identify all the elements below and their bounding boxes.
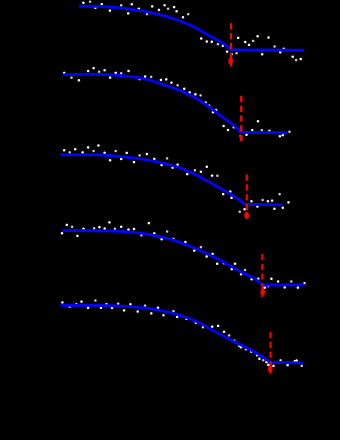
panel 1 red dashed break-time line — [230, 23, 232, 66]
panel 5 red break marker ellipse — [268, 366, 273, 373]
panel 3 scatter data points (white) — [63, 144, 290, 213]
panel 4 red break marker ellipse — [261, 289, 266, 296]
panel 2 red break marker ellipse — [240, 135, 243, 141]
panel 5 red dashed break-time line — [270, 332, 272, 374]
panel 3 blue model light curve — [61, 155, 283, 205]
panel 1 scatter data points (white) — [82, 1, 302, 62]
panel 3 red break marker ellipse — [244, 212, 249, 219]
panel 1 blue model light curve — [79, 6, 304, 50]
panel 1 red break marker ellipse — [228, 58, 233, 65]
panel 2 red dashed break-time line — [240, 96, 242, 143]
panel 4 scatter data points (white) — [61, 221, 306, 289]
panel 2 scatter data points (white) — [63, 67, 291, 138]
panel 4 red dashed break-time line — [261, 254, 263, 297]
panel 4 blue model light curve — [62, 231, 305, 286]
panel 2 blue model light curve — [63, 74, 288, 133]
panel 5 blue model light curve — [61, 305, 304, 363]
panel 5 scatter data points (white) — [61, 299, 303, 367]
panel 3 red dashed break-time line — [246, 175, 248, 220]
